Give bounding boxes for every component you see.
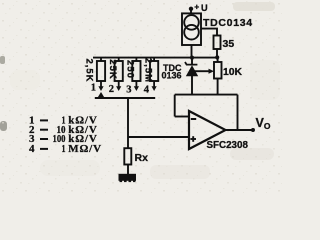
range legend — [29, 115, 102, 156]
output wire — [226, 129, 254, 131]
wire to op-amp - input — [175, 116, 189, 118]
zener diode TDC0136 — [185, 58, 198, 95]
svg-text:250: 250 — [125, 60, 136, 79]
svg-text:2,5M: 2,5M — [142, 58, 153, 83]
resistor R4 2,5M — [150, 58, 158, 91]
resistor R2 25K — [115, 58, 123, 91]
svg-text:Rx: Rx — [135, 152, 149, 164]
op-amp U2 SFC2308 — [189, 111, 226, 149]
resistor R3 250 — [132, 58, 140, 91]
top rail wire — [93, 57, 218, 59]
feedback wire right — [237, 95, 239, 130]
legend dash 1 — [40, 119, 48, 121]
feedback wire left — [174, 95, 176, 117]
resistor R1 2,5K — [97, 58, 105, 91]
svg-text:1: 1 — [91, 83, 96, 94]
svg-text:U: U — [201, 3, 208, 13]
feedback wire top — [175, 94, 238, 96]
wire selector to Rx — [127, 98, 129, 148]
svg-text:2,5K: 2,5K — [84, 58, 95, 82]
svg-text:0136: 0136 — [161, 70, 181, 80]
label TDC 0136 — [161, 63, 182, 81]
ground — [119, 174, 137, 182]
current source U TDC0134 — [182, 13, 201, 45]
svg-text:+: + — [194, 2, 199, 12]
wire to op-amp + input — [128, 136, 189, 138]
svg-text:4: 4 — [144, 85, 150, 96]
svg-text:SFC2308: SFC2308 — [207, 140, 249, 151]
legend dash 2 — [40, 129, 48, 131]
legend dash 3 — [40, 138, 48, 140]
resistor Rx — [124, 148, 131, 174]
svg-text:10K: 10K — [223, 67, 243, 78]
node +U — [189, 2, 208, 13]
wire +U to current source — [190, 9, 192, 14]
svg-text:TDC0134: TDC0134 — [203, 17, 253, 29]
wiper arrow diode to potentiometer — [194, 69, 214, 74]
wire current source to resistor 35 — [201, 29, 217, 36]
potentiometer 10K — [214, 58, 222, 95]
svg-text:3: 3 — [126, 85, 131, 96]
svg-text:25K: 25K — [107, 59, 118, 79]
selector wire — [95, 97, 155, 99]
resistor 35 — [214, 36, 221, 58]
svg-text:35: 35 — [223, 38, 235, 50]
wire current source bottom to rail — [191, 45, 193, 58]
selector arrow — [98, 92, 105, 98]
svg-text:2: 2 — [109, 84, 114, 95]
legend dash 4 — [40, 148, 48, 150]
junction dot rail / diode column — [190, 56, 194, 60]
node Vo — [251, 128, 255, 132]
junction dot rail / R35-pot column — [215, 55, 219, 59]
